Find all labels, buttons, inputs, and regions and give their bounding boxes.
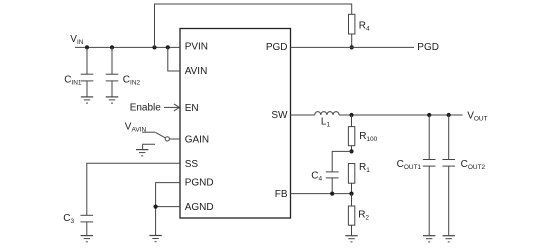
svg-text:C4: C4 [311,170,322,182]
svg-text:EN: EN [185,103,199,114]
capacitor CIN1 [81,47,94,97]
svg-text:C3: C3 [63,213,74,225]
wire AVIN drop [168,47,180,71]
resistor R2 [348,206,354,225]
wire AGND [156,206,180,208]
svg-text:L1: L1 [321,117,331,129]
svg-text:GAIN: GAIN [185,135,209,146]
ground under C3 [81,236,93,242]
svg-text:CIN1: CIN1 [64,74,82,86]
ground under R2 [345,236,357,242]
wire SS [87,163,180,215]
junction dot R100-R1-C4 [349,149,353,153]
capacitor C3 [81,215,94,235]
svg-text:R1: R1 [359,162,370,174]
switch pole circle [165,137,169,141]
svg-text:COUT1: COUT1 [397,159,422,171]
ground under CIN2 [106,97,118,103]
junction dot VOUT-COUT2 [447,113,451,117]
junction dot SW-R100 [349,113,353,117]
svg-text:SS: SS [185,159,199,170]
wire VAVIN stub [142,131,155,133]
wire R100 to junction [351,146,353,152]
svg-text:FB: FB [275,189,288,200]
junction dot AGND [154,205,158,209]
svg-text:PGD: PGD [266,42,288,53]
svg-text:R4: R4 [359,21,370,33]
junction dot VIN-R4riser [152,45,156,49]
wire switch to GAIN [170,138,181,140]
wire PGD [291,46,415,48]
ground under CIN1 [81,97,93,103]
junction dot VIN-CIN2 [110,45,114,49]
junction dot VOUT-COUT1 [427,113,431,117]
junction dot FB-R1-R2 [349,192,353,196]
svg-text:AGND: AGND [185,202,214,213]
junction dot VIN-AVIN [166,45,170,49]
wire SW junction down to R100 [351,115,353,127]
capacitor CIN2 [106,47,119,97]
ground under COUT2 [443,236,455,242]
svg-text:R2: R2 [358,210,369,222]
svg-text:AVIN: AVIN [185,66,208,77]
svg-text:Enable: Enable [130,103,162,114]
wire PGND [156,183,180,236]
svg-text:VAVIN: VAVIN [125,121,147,133]
junction dot FB-C4 [330,192,334,196]
resistor R4 [349,14,355,34]
wire FB [291,193,352,195]
wire Enable arrow [164,106,179,108]
svg-text:PGND: PGND [185,178,214,189]
svg-text:COUT2: COUT2 [461,159,486,171]
capacitor COUT1 [423,115,436,236]
wire top riser from VIN to R4 [155,4,352,47]
capacitor C4 [326,172,339,194]
IC U1 (regulator body) [180,29,291,219]
capacitor COUT2 [442,115,455,236]
svg-text:CIN2: CIN2 [123,74,141,86]
wire R2 to ground [351,225,353,236]
svg-text:PVIN: PVIN [185,42,208,53]
svg-text:VIN: VIN [70,34,83,46]
ground of switch [136,150,148,156]
wire SW to inductor [291,114,315,116]
junction dot R4-PGD [350,45,354,49]
switch lever [156,132,166,138]
ground under PGND/AGND [149,236,161,242]
wire R1 to FB line [351,183,353,193]
junction dot VIN-CIN1 [85,45,89,49]
wire R4 to PGD line [351,34,353,47]
wire switch ground stub [143,144,155,149]
resistor R1 [348,164,354,184]
inductor L1 [315,112,339,115]
resistor R100 [348,127,354,146]
svg-text:PGD: PGD [417,42,439,53]
wire VIN horizontal [75,46,180,48]
svg-text:VOUT: VOUT [467,110,487,122]
ground under COUT1 [423,236,435,242]
wire FB junction to R2 [351,194,353,206]
wire junction to C4 [332,151,351,172]
wire inductor to VOUT [339,114,463,116]
svg-text:R100: R100 [359,131,377,143]
svg-text:SW: SW [271,110,288,121]
